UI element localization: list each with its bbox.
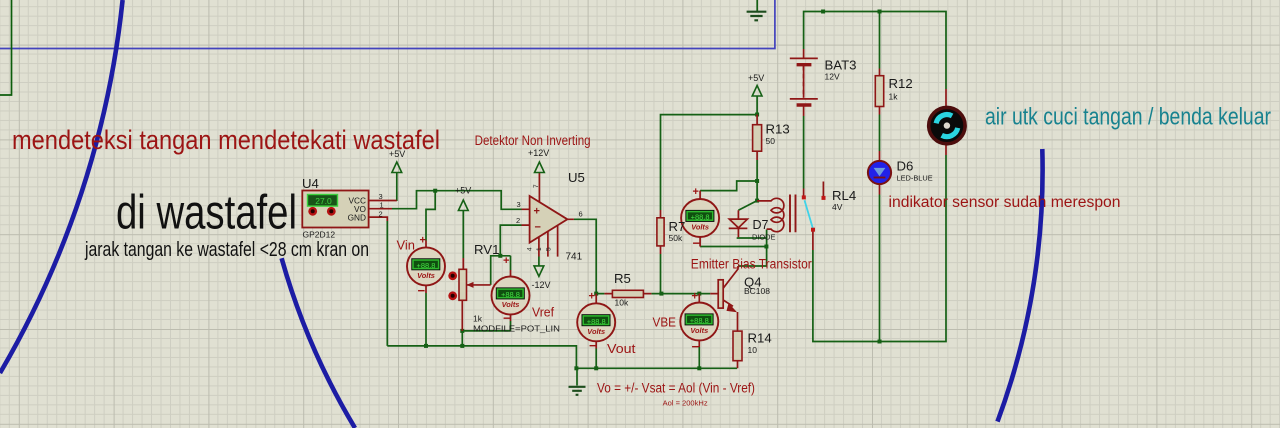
svg-text:Volts: Volts — [587, 327, 605, 336]
svg-text:U5: U5 — [568, 170, 585, 185]
svg-text:27.0: 27.0 — [315, 196, 332, 206]
svg-text:+12V: +12V — [528, 148, 549, 158]
svg-text:Vref: Vref — [532, 305, 554, 320]
svg-text:3: 3 — [517, 200, 521, 209]
svg-text:50k: 50k — [669, 233, 683, 243]
svg-text:6: 6 — [579, 210, 583, 219]
svg-text:2: 2 — [379, 209, 383, 218]
svg-text:+5V: +5V — [389, 149, 405, 159]
svg-text:−: − — [589, 338, 597, 353]
svg-text:+5V: +5V — [455, 186, 471, 196]
svg-text:Volts: Volts — [691, 223, 709, 232]
svg-text:jarak tangan ke wastafel <28 c: jarak tangan ke wastafel <28 cm kran on — [84, 238, 369, 261]
svg-text:Detektor Non Inverting: Detektor Non Inverting — [475, 133, 591, 148]
svg-text:RV1: RV1 — [474, 242, 499, 257]
svg-text:−: − — [693, 236, 701, 251]
svg-text:1: 1 — [536, 247, 543, 251]
svg-text:indikator sensor sudah merespo: indikator sensor sudah merespon — [889, 194, 1121, 211]
svg-text:−: − — [692, 339, 700, 354]
svg-text:+: + — [503, 255, 509, 267]
svg-text:+: + — [420, 235, 426, 247]
svg-text:D7: D7 — [753, 218, 769, 232]
svg-text:−: − — [418, 283, 426, 298]
svg-text:+88.8: +88.8 — [691, 213, 710, 222]
svg-text:DIODE: DIODE — [752, 232, 775, 241]
svg-text:R14: R14 — [748, 331, 772, 346]
svg-text:BAT3: BAT3 — [825, 58, 857, 73]
svg-text:10: 10 — [748, 345, 758, 355]
svg-text:50: 50 — [766, 136, 776, 146]
svg-text:LED-BLUE: LED-BLUE — [897, 173, 933, 182]
svg-text:-12V: -12V — [532, 280, 551, 290]
svg-text:12V: 12V — [825, 72, 840, 82]
svg-text:air utk cuci tangan / benda ke: air utk cuci tangan / benda keluar — [985, 104, 1271, 131]
svg-text:1k: 1k — [889, 92, 899, 102]
svg-text:Vin: Vin — [397, 238, 416, 253]
svg-text:GP2D12: GP2D12 — [303, 230, 336, 240]
svg-text:U4: U4 — [302, 176, 319, 191]
svg-text:D6: D6 — [897, 159, 914, 174]
svg-text:+: + — [534, 206, 540, 218]
svg-text:+: + — [589, 291, 595, 303]
svg-text:R12: R12 — [889, 76, 913, 91]
svg-text:+88.8: +88.8 — [501, 290, 520, 299]
svg-text:GND: GND — [348, 212, 366, 222]
svg-text:+88.8: +88.8 — [587, 317, 606, 326]
svg-text:BC108: BC108 — [744, 286, 770, 296]
svg-text:+88.8: +88.8 — [417, 261, 436, 270]
svg-text:+5V: +5V — [748, 73, 764, 83]
svg-text:R5: R5 — [614, 271, 631, 286]
svg-text:mendeteksi tangan mendetekati: mendeteksi tangan mendetekati wastafel — [12, 125, 440, 155]
svg-text:Volts: Volts — [417, 271, 435, 280]
svg-text:MODFILE=POT_LIN: MODFILE=POT_LIN — [473, 324, 560, 334]
svg-text:Vout: Vout — [607, 341, 636, 356]
svg-text:Volts: Volts — [690, 326, 708, 335]
svg-text:−: − — [535, 222, 541, 234]
svg-text:1: 1 — [380, 201, 384, 210]
svg-text:4: 4 — [527, 247, 534, 251]
svg-text:R13: R13 — [766, 122, 790, 137]
svg-text:VBE: VBE — [653, 315, 677, 330]
svg-text:2: 2 — [516, 216, 520, 225]
svg-text:741: 741 — [566, 252, 583, 263]
svg-text:Aol = 200kHz: Aol = 200kHz — [663, 398, 708, 407]
svg-text:5: 5 — [546, 247, 553, 251]
svg-text:+: + — [693, 186, 699, 198]
svg-text:R7: R7 — [669, 219, 686, 234]
svg-text:Emitter Bias Transistor: Emitter Bias Transistor — [691, 257, 812, 272]
svg-text:Volts: Volts — [502, 300, 520, 309]
svg-text:di wastafel: di wastafel — [116, 187, 297, 240]
svg-text:Vo = +/- Vsat = Aol (Vin - Vre: Vo = +/- Vsat = Aol (Vin - Vref) — [597, 381, 755, 396]
svg-text:+88.8: +88.8 — [690, 316, 709, 325]
svg-text:10k: 10k — [615, 298, 629, 308]
svg-text:+: + — [692, 291, 698, 303]
svg-text:7: 7 — [533, 184, 540, 188]
svg-text:1k: 1k — [473, 314, 483, 324]
svg-text:4V: 4V — [832, 202, 843, 212]
svg-text:RL4: RL4 — [832, 188, 856, 203]
